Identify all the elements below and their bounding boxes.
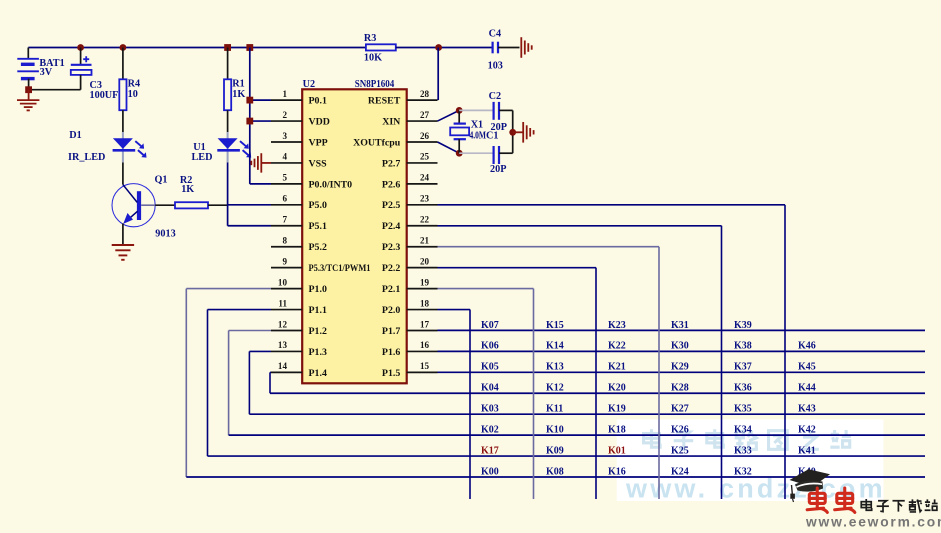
wire rail to C3	[80, 48, 82, 65]
wire C4 to ground	[498, 47, 520, 49]
svg-text:20: 20	[420, 256, 430, 266]
resistor R2	[175, 202, 208, 208]
svg-text:K41: K41	[798, 445, 816, 456]
wire pin26 diagonal	[438, 142, 460, 153]
wire R3 to C4	[396, 47, 492, 49]
wire key row 5	[229, 434, 925, 436]
svg-text:12: 12	[278, 319, 288, 329]
svg-text:27: 27	[420, 110, 430, 120]
svg-text:K37: K37	[734, 362, 752, 373]
wire C1 right	[499, 152, 513, 154]
ground under Q1	[112, 245, 134, 260]
svg-text:18: 18	[420, 298, 430, 308]
svg-text:R1: R1	[232, 78, 244, 89]
svg-text:Q1: Q1	[155, 175, 168, 186]
wire pin10 net	[186, 289, 271, 477]
wire reset to pin28	[437, 48, 439, 101]
svg-text:K20: K20	[608, 383, 626, 394]
svg-text:K45: K45	[798, 362, 816, 373]
svg-text:K36: K36	[734, 383, 752, 394]
svg-text:20P: 20P	[490, 164, 506, 175]
wire pin12 net	[229, 330, 271, 435]
junction battery/ground	[25, 86, 32, 93]
svg-text:XOUTfcpu: XOUTfcpu	[353, 137, 401, 148]
svg-text:LED: LED	[192, 152, 213, 163]
wire XIN to C2	[459, 109, 493, 111]
wire VSS	[262, 162, 271, 164]
svg-text:1K: 1K	[181, 184, 194, 195]
svg-text:K25: K25	[671, 445, 689, 456]
junction pin1	[246, 97, 253, 104]
svg-text:24: 24	[420, 173, 430, 183]
svg-text:RESET: RESET	[368, 96, 401, 107]
svg-text:K34: K34	[734, 425, 752, 436]
wire XIN to X1	[458, 110, 460, 123]
wire key row 2	[438, 371, 926, 373]
wire pin20 column	[438, 268, 597, 499]
svg-text:VPP: VPP	[309, 137, 328, 148]
svg-text:4.0M: 4.0M	[470, 131, 487, 142]
pin 1 P0.1	[271, 89, 327, 107]
wire R1 to U1	[227, 110, 229, 132]
svg-text:K42: K42	[798, 425, 816, 436]
capacitor C4	[493, 42, 498, 54]
wire C3 bottom	[80, 75, 82, 90]
svg-text:15: 15	[420, 361, 430, 371]
svg-text:K46: K46	[798, 341, 816, 352]
svg-text:K18: K18	[608, 425, 626, 436]
svg-text:K21: K21	[608, 362, 626, 373]
wire pin11 net	[208, 310, 272, 457]
svg-text:D1: D1	[69, 130, 81, 141]
wire XOUT to C1	[459, 152, 493, 154]
wire through D1 body	[122, 132, 124, 163]
svg-text:P2.5: P2.5	[382, 200, 400, 211]
svg-text:14: 14	[278, 361, 288, 371]
svg-text:1: 1	[282, 89, 287, 99]
svg-text:XIN: XIN	[382, 116, 400, 127]
svg-text:103: 103	[488, 60, 503, 71]
junction C3 on rail	[77, 44, 84, 51]
pin 10 P1.0	[271, 277, 327, 295]
svg-text:10K: 10K	[364, 53, 382, 64]
svg-text:C2: C2	[489, 91, 501, 102]
svg-text:25: 25	[420, 152, 430, 162]
svg-text:K33: K33	[734, 445, 752, 456]
svg-text:P0.0/INT0: P0.0/INT0	[309, 179, 353, 190]
wire rail to R1	[227, 48, 229, 80]
junction R4 on rail	[120, 44, 127, 51]
junction power column on rail	[246, 44, 253, 51]
wire key row 4	[249, 413, 925, 415]
svg-text:7: 7	[282, 215, 287, 225]
wire to ground	[513, 131, 524, 133]
junction pin2	[246, 118, 253, 125]
svg-text:P2.2: P2.2	[382, 263, 400, 274]
pin 16 P1.6	[382, 340, 438, 358]
wire crystal ground column	[512, 110, 514, 153]
svg-text:P2.1: P2.1	[382, 284, 400, 295]
wire to pin1	[250, 99, 271, 101]
svg-text:21: 21	[420, 236, 430, 246]
svg-text:K28: K28	[671, 383, 689, 394]
svg-text:P1.3: P1.3	[309, 347, 327, 358]
junction R1 on rail	[224, 44, 231, 51]
pin 19 P2.1	[382, 277, 438, 295]
svg-text:6: 6	[282, 194, 287, 204]
wire to pin2	[250, 120, 271, 122]
svg-text:K26: K26	[671, 425, 689, 436]
svg-text:K13: K13	[546, 362, 564, 373]
svg-text:K27: K27	[671, 404, 689, 415]
svg-text:10: 10	[128, 89, 138, 100]
svg-text:P2.7: P2.7	[382, 158, 400, 169]
pin 17 P1.7	[382, 319, 438, 337]
svg-text:K06: K06	[481, 341, 499, 352]
battery BAT1	[17, 59, 39, 79]
capacitor C2	[494, 102, 499, 120]
svg-text:K32: K32	[734, 466, 752, 477]
svg-text:VSS: VSS	[309, 158, 328, 169]
svg-text:www.eeworm.com: www.eeworm.com	[805, 515, 941, 528]
junction crystal ground	[509, 129, 516, 136]
svg-text:VDD: VDD	[309, 116, 330, 127]
junction XOUT	[456, 150, 463, 157]
wire pin22 column	[438, 226, 722, 499]
wire battery drop	[27, 48, 29, 59]
junction reset net	[435, 44, 442, 51]
pin 3 VPP	[271, 131, 328, 149]
transistor Q1	[112, 184, 155, 227]
pin 5 P0.0/INT0	[271, 173, 352, 191]
svg-text:9: 9	[282, 256, 287, 266]
svg-text:26: 26	[420, 131, 430, 141]
pin 25 P2.7	[382, 152, 438, 170]
wire key row 1	[438, 350, 926, 352]
watermark text line1	[644, 429, 661, 447]
svg-text:16: 16	[420, 340, 430, 350]
svg-text:K09: K09	[546, 445, 564, 456]
resistor R1	[224, 79, 231, 110]
pin 4 VSS	[271, 152, 327, 170]
svg-text:K15: K15	[546, 320, 564, 331]
wire key row 0	[438, 329, 926, 331]
ground under battery	[17, 90, 39, 111]
pin 24 P2.6	[382, 173, 438, 191]
wire D1 to Q1 collector	[122, 163, 124, 185]
wire pin18 column	[438, 310, 471, 499]
pin 15 P1.5	[382, 361, 438, 379]
pin 26 XOUTfcpu	[353, 131, 437, 149]
logo chongchong	[807, 488, 855, 512]
watermark box www.cndzz.com	[617, 419, 884, 501]
svg-text:100UF: 100UF	[90, 90, 119, 101]
wire rail to R4	[122, 48, 124, 80]
svg-text:K43: K43	[798, 404, 816, 415]
pin 12 P1.2	[271, 319, 327, 337]
svg-text:K03: K03	[481, 404, 499, 415]
wire pin13 net	[249, 351, 271, 414]
pin 11 P1.1	[271, 298, 327, 316]
wire VDD power rail	[28, 47, 366, 49]
wire to pin5	[250, 183, 271, 185]
svg-text:R4: R4	[128, 78, 140, 89]
svg-text:23: 23	[420, 194, 430, 204]
svg-text:K10: K10	[546, 425, 564, 436]
wire power column	[249, 48, 251, 184]
svg-text:K16: K16	[608, 466, 626, 477]
ground crystal	[523, 122, 533, 143]
svg-text:U2: U2	[303, 79, 315, 90]
svg-text:K24: K24	[671, 466, 689, 477]
wire battery to C3 bottom	[29, 89, 81, 91]
svg-text:11: 11	[278, 298, 287, 308]
wire R2 to pin6	[208, 204, 228, 206]
pin 28 RESET	[368, 89, 438, 107]
svg-text:P2.3: P2.3	[382, 242, 400, 253]
svg-text:4: 4	[282, 152, 287, 162]
svg-text:P1.6: P1.6	[382, 347, 400, 358]
capacitor C3	[71, 56, 92, 75]
ground C4	[521, 37, 531, 58]
wire through U1 body	[227, 132, 229, 163]
svg-text:C1: C1	[486, 131, 498, 142]
wire C2 right	[499, 109, 513, 111]
svg-text:13: 13	[278, 340, 288, 350]
wire key row 6	[208, 455, 926, 457]
ground VSS	[251, 153, 261, 172]
svg-text:P5.3/TC1/PWM1: P5.3/TC1/PWM1	[309, 263, 371, 274]
svg-text:K11: K11	[546, 404, 563, 415]
wire pin14 net	[270, 372, 271, 393]
pin 27 XIN	[382, 110, 437, 128]
wire Q1 emitter	[122, 224, 124, 245]
wire pin27 diagonal	[438, 110, 460, 121]
svg-text:P1.0: P1.0	[309, 284, 327, 295]
junction XIN	[456, 107, 463, 114]
ic U2 SN8P1604	[302, 89, 407, 383]
pin 2 VDD	[271, 110, 330, 128]
svg-text:5: 5	[282, 173, 287, 183]
pin 22 P2.4	[382, 215, 438, 233]
pin 14 P1.4	[271, 361, 327, 379]
svg-text:R3: R3	[364, 33, 376, 44]
svg-text:P1.5: P1.5	[382, 368, 400, 379]
svg-text:P1.7: P1.7	[382, 326, 400, 337]
svg-text:3V: 3V	[40, 67, 53, 78]
svg-text:P2.0: P2.0	[382, 305, 400, 316]
svg-text:P2.6: P2.6	[382, 179, 400, 190]
wire pin21 column	[438, 247, 660, 499]
wire key row 3	[270, 392, 925, 394]
pin 7 P5.1	[271, 215, 327, 233]
svg-text:K35: K35	[734, 404, 752, 415]
svg-text:K30: K30	[671, 341, 689, 352]
resistor R4	[119, 79, 126, 110]
svg-text:K39: K39	[734, 320, 752, 331]
svg-text:P5.2: P5.2	[309, 242, 327, 253]
wire key row 7	[186, 476, 925, 478]
crystal X1	[450, 124, 469, 140]
pin 9 P5.3/TC1/PWM1	[271, 256, 371, 274]
svg-text:K14: K14	[546, 341, 564, 352]
svg-text:P1.1: P1.1	[309, 305, 327, 316]
svg-text:X1: X1	[471, 119, 483, 130]
svg-text:K22: K22	[608, 341, 626, 352]
svg-text:17: 17	[420, 319, 430, 329]
pin 18 P2.0	[382, 298, 438, 316]
svg-text:P1.2: P1.2	[309, 326, 327, 337]
pin 21 P2.3	[382, 236, 438, 254]
logo text dianzixiazaizhan	[861, 499, 937, 512]
wire pin19 column	[438, 289, 534, 499]
svg-text:K01: K01	[608, 445, 626, 456]
svg-text:2: 2	[282, 110, 287, 120]
capacitor C1	[494, 146, 499, 164]
wire pin23 column	[438, 205, 786, 499]
svg-text:K04: K04	[481, 383, 499, 394]
svg-text:K08: K08	[546, 466, 564, 477]
svg-text:K38: K38	[734, 341, 752, 352]
led D1	[113, 138, 147, 157]
svg-text:K44: K44	[798, 383, 816, 394]
svg-text:22: 22	[420, 215, 430, 225]
svg-text:SN8P1604: SN8P1604	[355, 79, 395, 90]
svg-text:28: 28	[420, 89, 430, 99]
svg-text:P2.4: P2.4	[382, 221, 400, 232]
pin 8 P5.2	[271, 236, 327, 254]
led U1	[217, 138, 251, 157]
svg-text:K19: K19	[608, 404, 626, 415]
svg-text:K31: K31	[671, 320, 689, 331]
svg-text:IR_LED: IR_LED	[68, 152, 105, 163]
svg-text:K07: K07	[481, 320, 499, 331]
svg-text:10: 10	[278, 277, 288, 287]
wire battery negative	[28, 79, 30, 90]
pin 13 P1.3	[271, 340, 327, 358]
svg-text:9013: 9013	[155, 228, 175, 239]
wire R4 to D1	[122, 110, 124, 132]
wire Q1 base	[141, 204, 155, 206]
logo graduation cap	[790, 469, 831, 502]
pin 20 P2.2	[382, 256, 438, 274]
svg-text:K29: K29	[671, 362, 689, 373]
svg-text:K17: K17	[481, 445, 499, 456]
resistor R3	[366, 44, 396, 50]
svg-text:K05: K05	[481, 362, 499, 373]
svg-text:P1.4: P1.4	[309, 368, 327, 379]
svg-text:K23: K23	[608, 320, 626, 331]
pin 23 P2.5	[382, 194, 438, 212]
svg-text:3: 3	[282, 131, 287, 141]
wire X1 to XOUT	[458, 139, 460, 153]
svg-text:K12: K12	[546, 383, 564, 394]
svg-text:K00: K00	[481, 466, 499, 477]
svg-text:P0.1: P0.1	[309, 96, 327, 107]
pin 6 P5.0	[271, 194, 327, 212]
wire U1 cathode to pin7	[227, 163, 229, 226]
svg-text:1K: 1K	[232, 89, 245, 100]
svg-text:P5.1: P5.1	[309, 221, 327, 232]
svg-text:P5.0: P5.0	[309, 200, 327, 211]
svg-text:C4: C4	[489, 29, 501, 40]
svg-text:8: 8	[282, 236, 287, 246]
svg-text:19: 19	[420, 277, 430, 287]
svg-text:K02: K02	[481, 425, 499, 436]
